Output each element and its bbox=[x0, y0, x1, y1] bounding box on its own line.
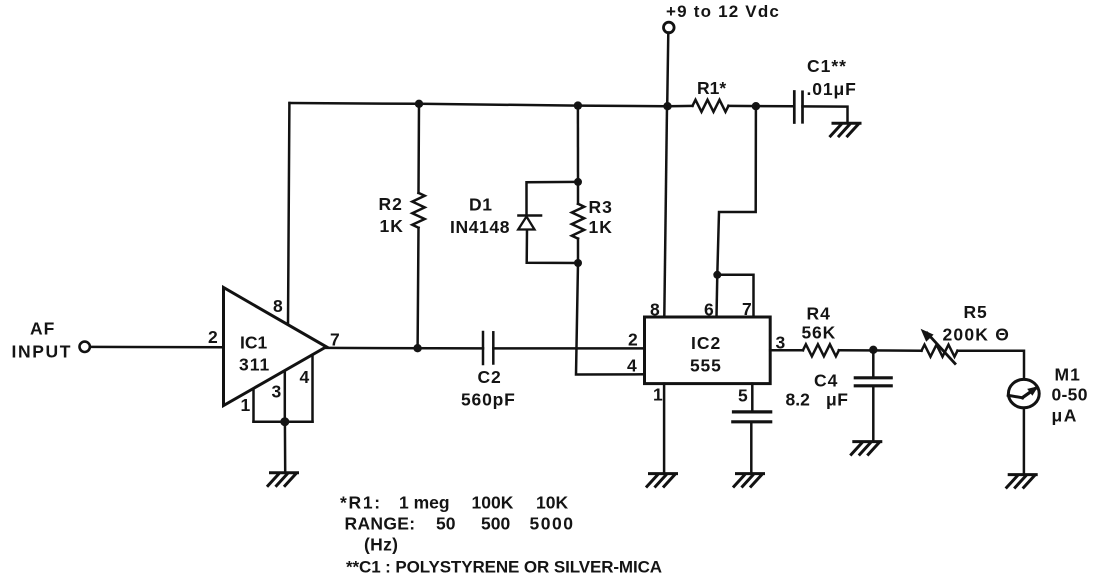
wire: top to D1 cathode bbox=[527, 182, 579, 215]
wire: meter to ground bbox=[1023, 409, 1026, 474]
node +V terminal (+9 to 12 Vdc) bbox=[664, 2, 781, 33]
resistor R4 bbox=[802, 304, 839, 357]
svg-text:2: 2 bbox=[208, 327, 218, 347]
ground (C1) bbox=[831, 123, 861, 136]
ground (IC2 pin 1) bbox=[647, 474, 677, 487]
svg-text:C2: C2 bbox=[478, 367, 502, 387]
wire: D1 anode to bottom junction bbox=[527, 230, 578, 263]
ground (C4) bbox=[851, 442, 881, 455]
svg-text:*R1:: *R1: bbox=[340, 493, 382, 513]
node: D1/R3 bottom junction bbox=[574, 259, 582, 267]
IC2 555 timer bbox=[645, 317, 771, 384]
svg-text:1 meg: 1 meg bbox=[399, 493, 450, 513]
svg-text:1K: 1K bbox=[589, 217, 613, 237]
svg-text:R4: R4 bbox=[807, 304, 831, 324]
node: R4/C4 junction bbox=[869, 346, 877, 354]
wire: +V down to IC2 pin 8 bbox=[664, 106, 667, 317]
wire: IC2 pin 3 output bbox=[770, 349, 803, 352]
svg-text:4: 4 bbox=[300, 367, 310, 387]
svg-text:.01μF: .01μF bbox=[807, 79, 857, 99]
capacitor C1 bbox=[794, 56, 856, 123]
svg-text:200K Θ: 200K Θ bbox=[943, 325, 1011, 345]
node: +V rail junction bbox=[663, 102, 671, 110]
svg-text:2: 2 bbox=[628, 330, 638, 350]
node: R2 top junction bbox=[415, 100, 423, 108]
ground (IC1) bbox=[268, 473, 298, 486]
svg-text:10K: 10K bbox=[536, 493, 568, 513]
svg-text:6: 6 bbox=[704, 300, 714, 320]
ground (M1) bbox=[1007, 475, 1036, 488]
wire: IC1 common to ground bbox=[284, 422, 287, 472]
svg-text:μF: μF bbox=[826, 390, 848, 410]
wire: C1 to ground bbox=[803, 106, 848, 122]
wire: IC2 pin 1 to ground bbox=[663, 384, 666, 473]
svg-text:IC1: IC1 bbox=[240, 333, 268, 353]
wire: D1/R3 top branch bbox=[577, 106, 580, 182]
svg-text:56K: 56K bbox=[802, 323, 837, 343]
svg-text:0-50: 0-50 bbox=[1052, 385, 1088, 405]
svg-text:5000: 5000 bbox=[530, 514, 575, 534]
svg-text:**C1 : POLYSTYRENE OR SILVER-M: **C1 : POLYSTYRENE OR SILVER-MICA bbox=[346, 558, 662, 577]
svg-text:IN4148: IN4148 bbox=[450, 217, 510, 237]
svg-text:μA: μA bbox=[1052, 406, 1078, 426]
svg-text:D1: D1 bbox=[469, 195, 493, 215]
svg-text:1K: 1K bbox=[380, 216, 404, 236]
svg-text:500: 500 bbox=[481, 514, 510, 534]
wire: pin 8 of IC1 from rail bbox=[288, 103, 289, 325]
svg-text:AF: AF bbox=[30, 319, 55, 339]
ground (pin 5 cap) bbox=[734, 474, 764, 487]
svg-text:8: 8 bbox=[650, 300, 660, 320]
wire: R3 bottom down to IC2 pin 4 bbox=[576, 263, 645, 375]
svg-text:(Hz): (Hz) bbox=[364, 535, 398, 555]
node: R1 output junction bbox=[752, 102, 760, 110]
svg-text:R5: R5 bbox=[964, 302, 988, 322]
node: D1/R3 top junction bbox=[574, 101, 582, 109]
node: IC1 pins common junction bbox=[280, 417, 289, 426]
wire: IC1 output (pin 7) to C2 bbox=[326, 347, 483, 350]
svg-text:IC2: IC2 bbox=[691, 333, 721, 353]
wire: C2 to IC2 pin 2 bbox=[493, 347, 644, 350]
diode D1 (1N4148) bbox=[450, 195, 541, 238]
meter M1 bbox=[1008, 365, 1088, 426]
svg-text:8: 8 bbox=[273, 296, 283, 316]
svg-text:3: 3 bbox=[272, 382, 282, 402]
svg-text:R2: R2 bbox=[379, 194, 403, 214]
node: R2 bottom / output junction bbox=[413, 344, 421, 352]
node: pin 6/7 tie junction bbox=[713, 271, 721, 279]
svg-text:+9 to 12 Vdc: +9 to 12 Vdc bbox=[666, 2, 780, 21]
wire: R1 right to C1 bbox=[729, 105, 794, 108]
svg-text:C4: C4 bbox=[814, 371, 838, 391]
wire: junction to pin 7 bbox=[717, 275, 753, 317]
svg-text:560pF: 560pF bbox=[461, 390, 516, 410]
wire: +V rail (pin-8 corner to R1 left) bbox=[290, 103, 693, 106]
svg-text:INPUT: INPUT bbox=[12, 342, 73, 362]
resistor R2 bbox=[379, 104, 425, 348]
svg-text:311: 311 bbox=[239, 355, 270, 375]
capacitor C3 (pin 5 bypass) bbox=[733, 384, 771, 472]
op-amp IC1 (LM311) bbox=[224, 288, 327, 406]
svg-text:R1*: R1* bbox=[697, 78, 726, 98]
resistor R1 bbox=[693, 78, 729, 112]
wire: R1 output to IC2 pins 6,7 bbox=[717, 106, 756, 275]
svg-text:4: 4 bbox=[627, 356, 637, 376]
node: D1 top junction bbox=[574, 178, 582, 186]
resistor R3 bbox=[572, 182, 613, 263]
note: R1 range table line 1 bbox=[340, 493, 568, 513]
note: R1 range table line 2 bbox=[345, 514, 575, 534]
node AF INPUT terminal bbox=[12, 319, 90, 362]
svg-text:7: 7 bbox=[742, 299, 752, 319]
wire: junction to pin 6 bbox=[715, 275, 718, 317]
svg-text:RANGE:: RANGE: bbox=[345, 514, 416, 534]
capacitor C2 bbox=[461, 332, 516, 410]
capacitor C4 bbox=[786, 350, 892, 441]
svg-text:7: 7 bbox=[330, 330, 340, 350]
svg-text:50: 50 bbox=[436, 514, 456, 534]
wire: +V terminal down to rail bbox=[667, 33, 668, 107]
potentiometer R5 bbox=[921, 302, 1010, 364]
svg-text:100K: 100K bbox=[472, 493, 514, 513]
svg-text:R3: R3 bbox=[589, 197, 613, 217]
wire: IC1 pins 1,3,4 to common bbox=[254, 355, 313, 422]
svg-text:5: 5 bbox=[738, 386, 748, 406]
svg-text:1: 1 bbox=[653, 385, 663, 405]
svg-text:M1: M1 bbox=[1055, 365, 1081, 385]
wire: input terminal to IC1 pin 2 bbox=[90, 346, 224, 349]
svg-text:8.2: 8.2 bbox=[786, 390, 811, 410]
svg-text:C1**: C1** bbox=[807, 56, 847, 76]
svg-text:1: 1 bbox=[241, 395, 251, 415]
svg-text:555: 555 bbox=[690, 356, 722, 376]
wire: R5 to meter M1 bbox=[958, 351, 1025, 379]
wire: R4 to R5 bbox=[839, 349, 922, 352]
